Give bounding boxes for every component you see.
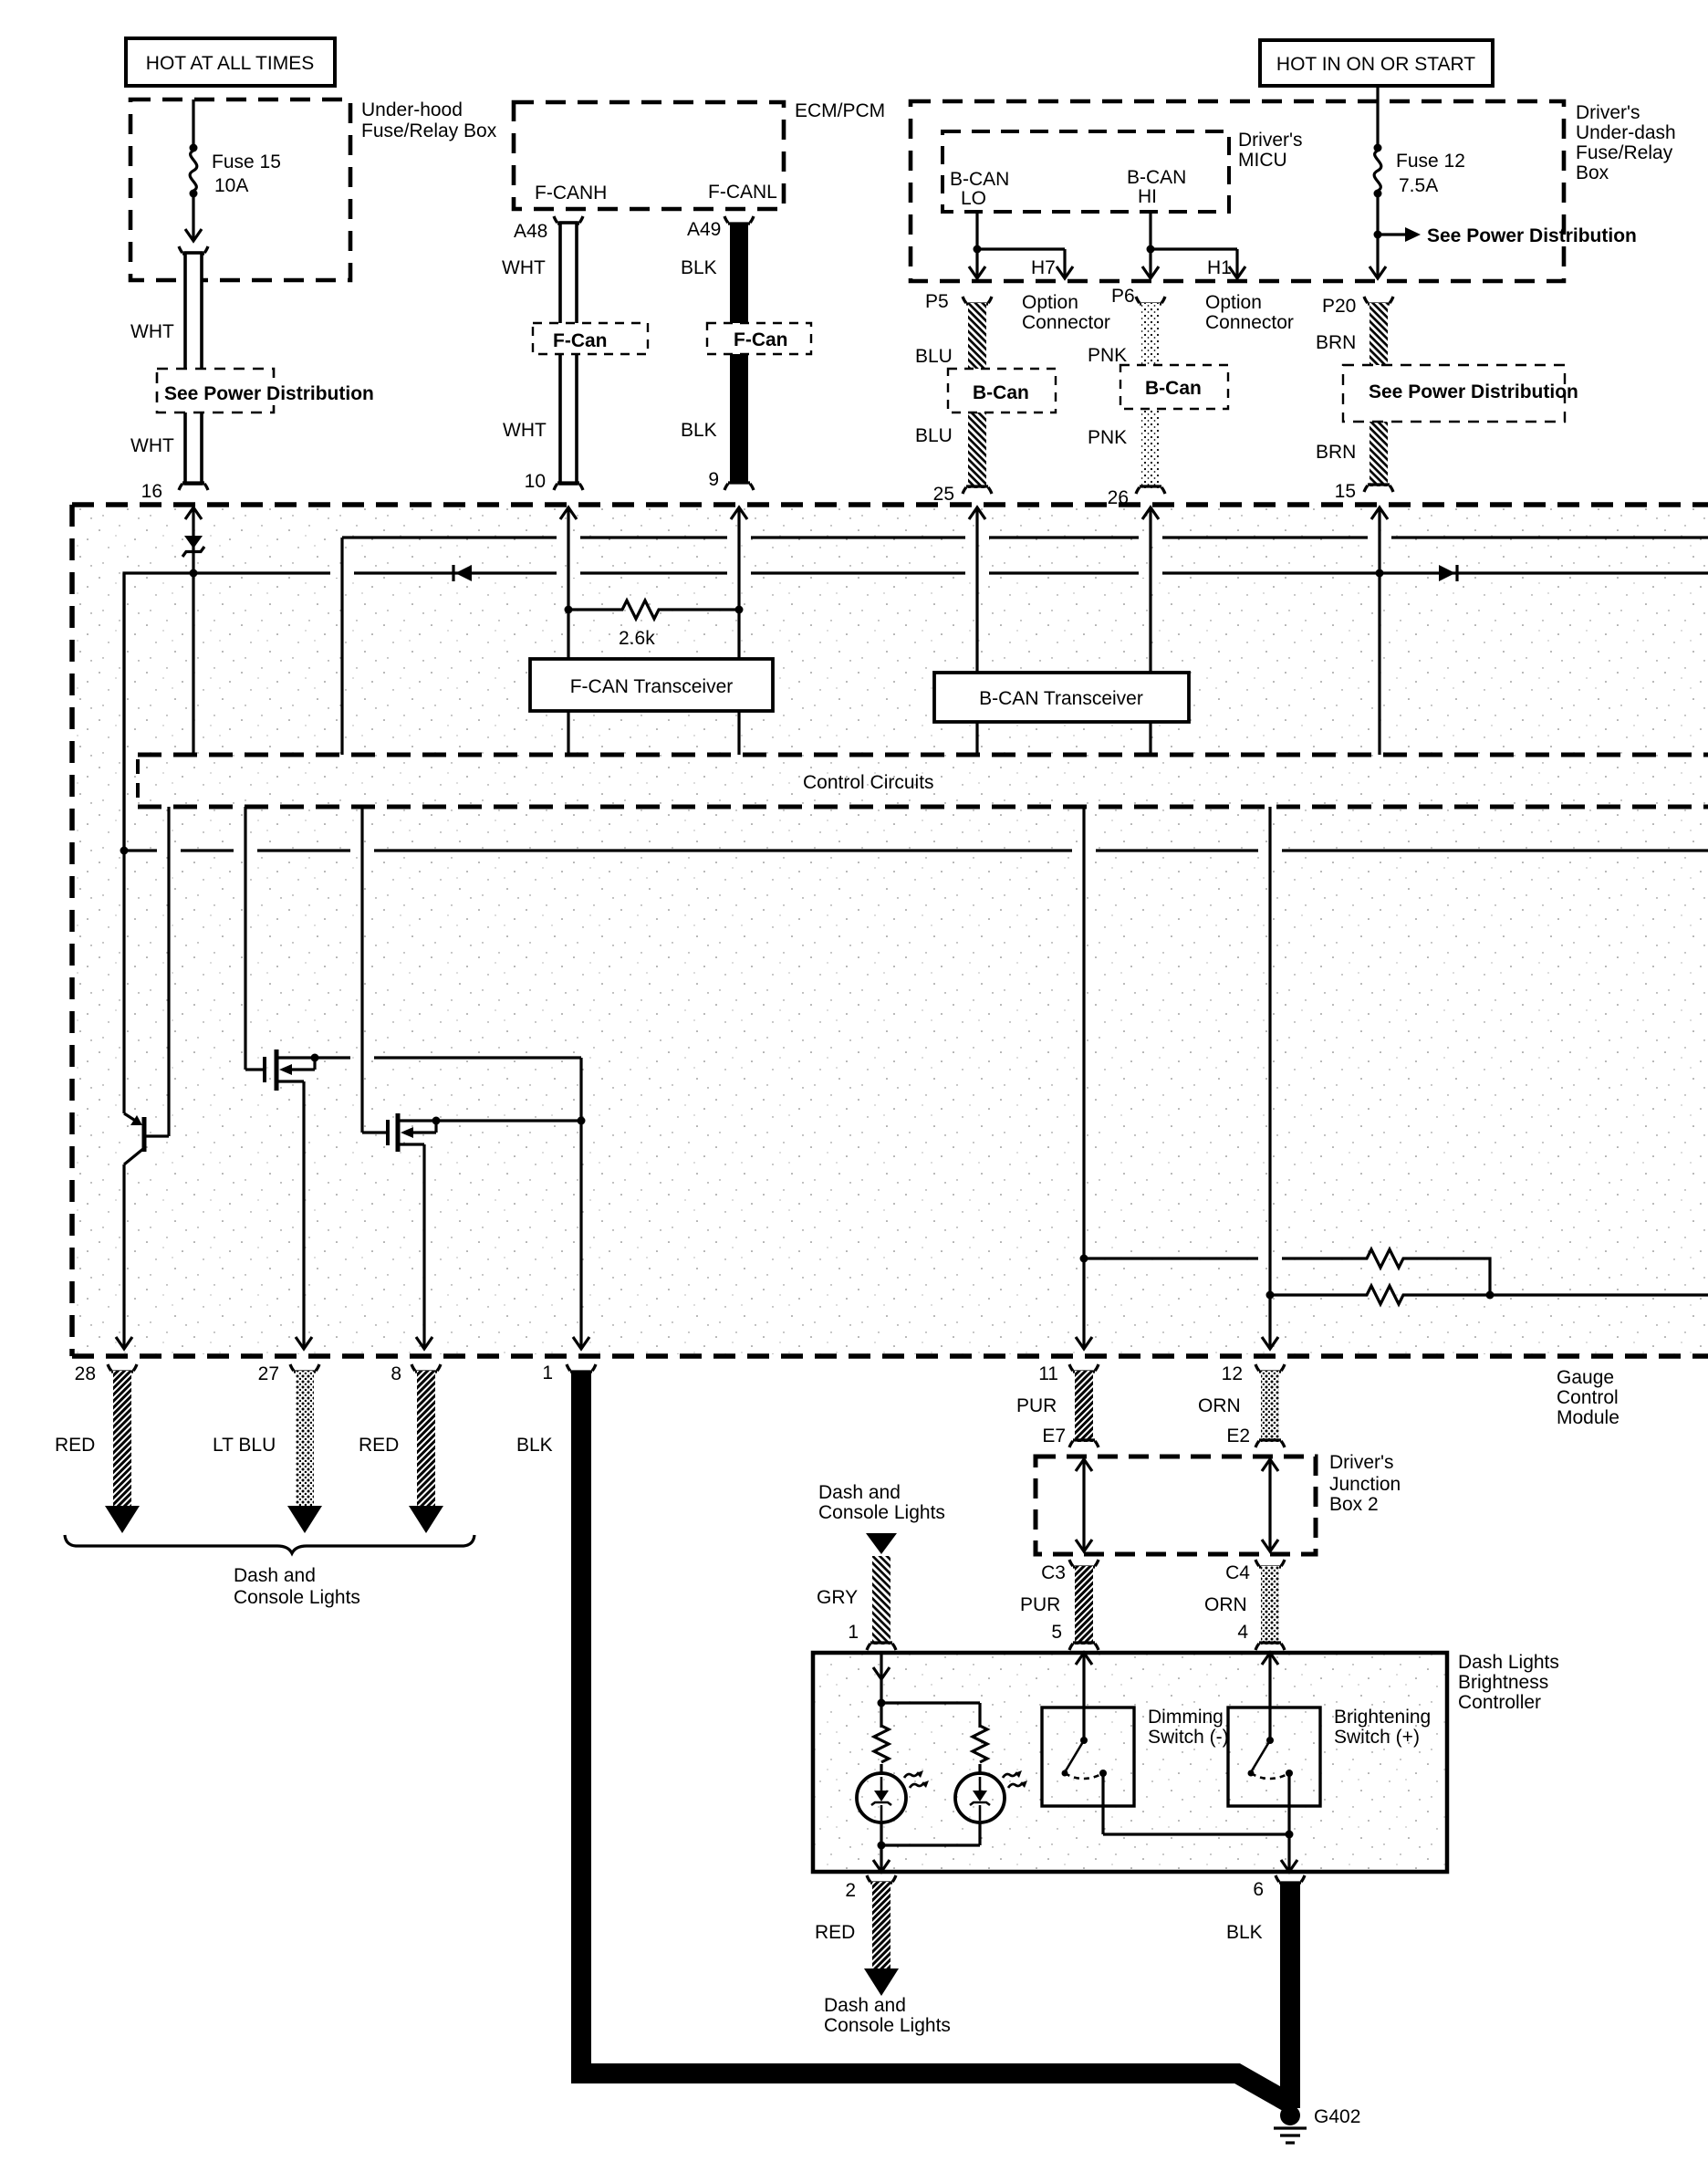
svg-text:LO: LO bbox=[961, 188, 986, 209]
wire GRY from Dash and Console Lights bbox=[817, 1482, 945, 1650]
svg-text:Dash Lights: Dash Lights bbox=[1458, 1652, 1559, 1673]
box Driver's MICU bbox=[943, 130, 1303, 212]
branch arrow See Power Distribution bbox=[1374, 225, 1637, 246]
svg-text:WHT: WHT bbox=[130, 435, 174, 456]
svg-text:6: 6 bbox=[1253, 1879, 1264, 1900]
svg-text:Dash and: Dash and bbox=[824, 1995, 906, 2016]
svg-text:BRN: BRN bbox=[1316, 442, 1356, 463]
svg-text:H7: H7 bbox=[1031, 257, 1056, 278]
svg-text:Connector: Connector bbox=[1022, 312, 1110, 333]
label Option Connector (right) bbox=[1205, 292, 1294, 333]
svg-text:Under-dash: Under-dash bbox=[1576, 122, 1676, 143]
wire LT BLU pin27 bbox=[213, 1363, 322, 1533]
svg-text:15: 15 bbox=[1335, 481, 1356, 502]
wire BRN pin P20-15 bbox=[1316, 296, 1393, 502]
wire line A drop to control circuits bbox=[340, 538, 343, 755]
svg-text:PNK: PNK bbox=[1088, 427, 1127, 448]
svg-text:ORN: ORN bbox=[1198, 1395, 1241, 1416]
svg-text:B-CAN: B-CAN bbox=[950, 169, 1009, 190]
box ECM/PCM bbox=[514, 100, 885, 209]
wire B-CAN LO to pin P5 and H7 bbox=[969, 212, 1073, 278]
diode on line B left bbox=[453, 565, 472, 581]
wire ORN pin12 to E2 bbox=[1198, 1363, 1285, 1447]
svg-text:F-CANL: F-CANL bbox=[708, 182, 777, 203]
svg-text:10: 10 bbox=[525, 471, 546, 492]
svg-text:4: 4 bbox=[1237, 1622, 1248, 1643]
svg-text:E7: E7 bbox=[1042, 1425, 1066, 1446]
wire PUR C3 to pin5 bbox=[1020, 1560, 1099, 1650]
switch Brightening Switch (+) bbox=[1228, 1653, 1431, 1872]
svg-text:F-Can: F-Can bbox=[553, 330, 608, 351]
svg-text:PUR: PUR bbox=[1020, 1594, 1060, 1615]
svg-text:Dash and: Dash and bbox=[234, 1565, 316, 1586]
svg-text:Control: Control bbox=[1557, 1387, 1619, 1408]
wire B-CAN HI to pin P6 and H1 bbox=[1142, 212, 1245, 278]
svg-text:B-Can: B-Can bbox=[1145, 378, 1202, 399]
svg-text:F-CANH: F-CANH bbox=[535, 183, 607, 204]
resistor left lamp bbox=[874, 1726, 889, 1762]
crossing gaps bbox=[157, 532, 1391, 1263]
svg-text:2.6k: 2.6k bbox=[619, 628, 655, 649]
wire BLK pin6 to ground bbox=[1226, 1875, 1305, 2108]
svg-text:F-CAN Transceiver: F-CAN Transceiver bbox=[570, 676, 734, 697]
svg-text:Console Lights: Console Lights bbox=[234, 1587, 360, 1608]
net label B-Can (right) bbox=[1120, 365, 1228, 409]
svg-text:E2: E2 bbox=[1226, 1425, 1250, 1446]
ground G402 bbox=[1274, 2105, 1360, 2143]
svg-text:Driver's: Driver's bbox=[1576, 102, 1640, 123]
svg-text:RED: RED bbox=[815, 1922, 855, 1943]
svg-text:HI: HI bbox=[1138, 186, 1157, 207]
svg-text:16: 16 bbox=[141, 481, 162, 502]
svg-text:RED: RED bbox=[55, 1435, 95, 1456]
svg-text:Option: Option bbox=[1022, 292, 1078, 313]
lamp right (illumination bulb) bbox=[955, 1764, 1027, 1845]
controller internal pin1 entry bbox=[873, 1653, 980, 1728]
wire resistor row 2 bbox=[1270, 1286, 1708, 1304]
svg-text:HOT AT ALL TIMES: HOT AT ALL TIMES bbox=[146, 53, 314, 74]
wire BLK pin9 F-CANL bbox=[681, 216, 754, 490]
svg-text:25: 25 bbox=[933, 484, 954, 505]
svg-text:ORN: ORN bbox=[1204, 1594, 1247, 1615]
svg-text:B-Can: B-Can bbox=[973, 382, 1029, 403]
svg-text:BLK: BLK bbox=[516, 1435, 553, 1456]
box Under-hood Fuse/Relay Box bbox=[130, 99, 497, 280]
svg-text:G402: G402 bbox=[1314, 2106, 1360, 2127]
lamp left (illumination bulb) bbox=[857, 1764, 929, 1845]
svg-text:P5: P5 bbox=[925, 291, 949, 312]
svg-text:BLK: BLK bbox=[681, 257, 717, 278]
resistor 2.6k bbox=[565, 600, 744, 649]
transistor M1 MOSFET bbox=[245, 807, 581, 1349]
wire WHT pin10 F-CANH bbox=[502, 216, 583, 492]
svg-text:Fuse 15: Fuse 15 bbox=[212, 151, 281, 172]
wire bus line B power rail bbox=[124, 573, 1708, 851]
svg-text:Under-hood: Under-hood bbox=[361, 99, 463, 120]
svg-text:Controller: Controller bbox=[1458, 1692, 1541, 1713]
svg-text:8: 8 bbox=[391, 1363, 401, 1384]
svg-text:Dash and: Dash and bbox=[818, 1482, 901, 1503]
svg-text:10A: 10A bbox=[214, 175, 248, 196]
svg-text:F-Can: F-Can bbox=[734, 329, 788, 350]
svg-text:Dimming: Dimming bbox=[1148, 1707, 1224, 1728]
wire pin 1 internal drain join bbox=[573, 1058, 589, 1349]
pin 25 internal lead bbox=[969, 507, 985, 755]
wire pin 11 internal bbox=[1076, 807, 1092, 1349]
transistor Q1 PNP bbox=[116, 573, 169, 1349]
diode on line B right bbox=[1439, 565, 1457, 581]
svg-text:Box 2: Box 2 bbox=[1329, 1494, 1379, 1515]
svg-text:28: 28 bbox=[75, 1363, 96, 1384]
svg-text:7.5A: 7.5A bbox=[1399, 175, 1438, 196]
svg-text:WHT: WHT bbox=[503, 420, 547, 441]
pin 16 internal lead with zener diode bbox=[182, 507, 204, 755]
box Driver's Junction Box 2 bbox=[1036, 1452, 1401, 1554]
svg-text:Junction: Junction bbox=[1329, 1474, 1401, 1495]
label Option Connector (left) bbox=[1022, 292, 1110, 333]
wire RED pin8 bbox=[359, 1363, 443, 1533]
svg-text:See Power Distribution: See Power Distribution bbox=[1369, 381, 1578, 402]
svg-text:Fuse/Relay: Fuse/Relay bbox=[1576, 142, 1673, 163]
brace Dash and Console Lights bbox=[65, 1535, 474, 1608]
svg-text:Control Circuits: Control Circuits bbox=[803, 772, 934, 793]
wire PNK pin P6-26 bbox=[1088, 286, 1165, 508]
wire ORN C4 to pin4 bbox=[1204, 1560, 1285, 1650]
wire resistor row 1 bbox=[1084, 1249, 1490, 1295]
svg-text:11: 11 bbox=[1038, 1363, 1058, 1384]
svg-text:Switch (+): Switch (+) bbox=[1334, 1727, 1420, 1748]
net label B-Can (left) bbox=[948, 369, 1056, 412]
switch Dimming Switch (-) bbox=[1042, 1653, 1229, 1834]
svg-text:Brightening: Brightening bbox=[1334, 1707, 1431, 1728]
box Driver's Under-dash Fuse/Relay Box bbox=[911, 101, 1676, 281]
resistor right lamp bbox=[973, 1726, 987, 1762]
svg-text:See Power Distribution: See Power Distribution bbox=[164, 383, 374, 404]
svg-text:Module: Module bbox=[1557, 1407, 1619, 1428]
svg-text:A48: A48 bbox=[514, 221, 547, 242]
svg-text:See Power Distribution: See Power Distribution bbox=[1427, 225, 1637, 246]
wire PUR pin11 to E7 bbox=[1016, 1363, 1099, 1447]
svg-text:Connector: Connector bbox=[1205, 312, 1294, 333]
fuse 15 bbox=[185, 99, 281, 241]
svg-text:GRY: GRY bbox=[817, 1587, 858, 1608]
svg-text:BLU: BLU bbox=[915, 425, 953, 446]
wire switch common bbox=[1103, 1831, 1297, 1873]
svg-text:Console Lights: Console Lights bbox=[818, 1502, 945, 1523]
wire bus line A bbox=[342, 536, 1708, 538]
svg-text:Fuse 12: Fuse 12 bbox=[1396, 151, 1465, 172]
svg-text:LT BLU: LT BLU bbox=[213, 1435, 276, 1456]
svg-text:Console Lights: Console Lights bbox=[824, 2015, 951, 2036]
wire junction box internal E7-C3 bbox=[1076, 1459, 1092, 1551]
svg-text:Gauge: Gauge bbox=[1557, 1367, 1614, 1388]
pin 15 internal lead bbox=[1371, 507, 1388, 755]
svg-text:C3: C3 bbox=[1041, 1562, 1066, 1583]
svg-text:12: 12 bbox=[1222, 1363, 1243, 1384]
module Gauge Control Module (dashed enclosure) bbox=[72, 505, 1708, 1428]
block B-CAN Transceiver bbox=[934, 673, 1189, 722]
svg-text:P20: P20 bbox=[1322, 296, 1356, 317]
svg-text:BRN: BRN bbox=[1316, 332, 1356, 353]
svg-text:Fuse/Relay Box: Fuse/Relay Box bbox=[361, 120, 497, 141]
svg-text:9: 9 bbox=[708, 469, 719, 490]
svg-text:B-CAN Transceiver: B-CAN Transceiver bbox=[979, 688, 1143, 709]
svg-text:BLK: BLK bbox=[1226, 1922, 1263, 1943]
svg-text:PUR: PUR bbox=[1016, 1395, 1057, 1416]
svg-text:ECM/PCM: ECM/PCM bbox=[795, 100, 885, 121]
power label HOT IN ON OR START bbox=[1260, 40, 1493, 86]
pin 9 internal lead bbox=[731, 507, 747, 755]
svg-text:B-CAN: B-CAN bbox=[1127, 167, 1186, 188]
svg-text:5: 5 bbox=[1051, 1622, 1062, 1643]
svg-text:27: 27 bbox=[258, 1363, 279, 1384]
svg-text:C4: C4 bbox=[1225, 1562, 1250, 1583]
svg-text:RED: RED bbox=[359, 1435, 399, 1456]
wire BLU pin P5-25 bbox=[915, 291, 992, 505]
svg-text:Switch (-): Switch (-) bbox=[1148, 1727, 1229, 1748]
power label HOT AT ALL TIMES bbox=[126, 38, 335, 86]
wire BLK pin1 to ground bbox=[516, 1363, 1290, 2104]
svg-text:A49: A49 bbox=[687, 219, 721, 240]
pin 26 internal lead bbox=[1142, 507, 1159, 755]
wire RED pin28 bbox=[55, 1363, 140, 1533]
svg-text:Brightness: Brightness bbox=[1458, 1672, 1548, 1693]
svg-text:WHT: WHT bbox=[502, 257, 546, 278]
wire RED pin2 bbox=[815, 1875, 951, 2036]
block Dash Lights Brightness Controller bbox=[813, 1652, 1559, 1872]
wire pin 12 internal bbox=[1262, 807, 1278, 1349]
svg-text:Driver's: Driver's bbox=[1238, 130, 1303, 151]
wire control line y932 bbox=[124, 849, 1708, 851]
transistor M2 MOSFET bbox=[362, 807, 581, 1349]
bus Control Circuits band bbox=[138, 755, 1708, 807]
svg-text:WHT: WHT bbox=[130, 321, 174, 342]
reference See Power Distribution (right) bbox=[1343, 365, 1578, 422]
svg-text:BLU: BLU bbox=[915, 346, 953, 367]
net label F-Can (right) bbox=[707, 323, 811, 354]
net label F-Can (left) bbox=[533, 323, 648, 354]
reference See Power Distribution (left) bbox=[157, 369, 378, 412]
svg-text:1: 1 bbox=[848, 1622, 859, 1643]
pin 10 internal lead bbox=[560, 507, 577, 755]
svg-text:HOT IN ON OR START: HOT IN ON OR START bbox=[1276, 54, 1475, 75]
svg-text:MICU: MICU bbox=[1238, 150, 1287, 171]
wire junction box internal E2-C4 bbox=[1262, 1459, 1278, 1551]
svg-text:BLK: BLK bbox=[681, 420, 717, 441]
svg-text:Box: Box bbox=[1576, 162, 1609, 183]
block F-CAN Transceiver bbox=[530, 659, 773, 711]
svg-text:PNK: PNK bbox=[1088, 345, 1127, 366]
svg-text:2: 2 bbox=[845, 1880, 856, 1901]
svg-text:Driver's: Driver's bbox=[1329, 1452, 1394, 1473]
wire lamp common to pin2 bbox=[873, 1842, 980, 1873]
svg-text:1: 1 bbox=[542, 1363, 553, 1384]
wire WHT pin16 bbox=[130, 246, 208, 502]
svg-text:H1: H1 bbox=[1207, 257, 1232, 278]
fuse 12 bbox=[1370, 86, 1465, 278]
svg-text:Option: Option bbox=[1205, 292, 1262, 313]
svg-text:P6: P6 bbox=[1111, 286, 1135, 307]
